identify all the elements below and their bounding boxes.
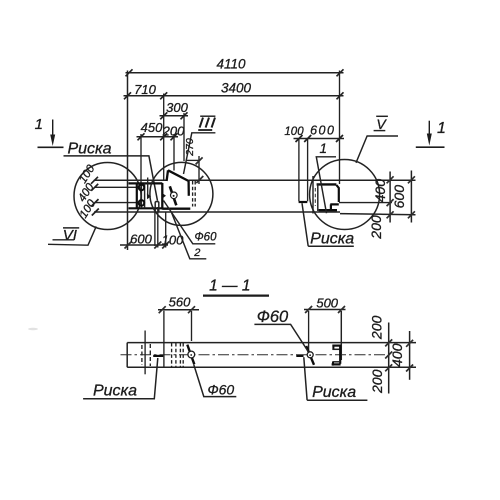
svg-text:Ф60: Ф60 <box>257 308 289 326</box>
extension anchor down <box>165 212 167 248</box>
beam left edge / extension <box>127 71 129 251</box>
svg-text:4110: 4110 <box>216 57 246 72</box>
beam right edge <box>340 311 342 360</box>
extension line x=339.5 <box>339 71 341 185</box>
right dim line 400/200 <box>389 172 391 223</box>
extension line x=163.7 <box>163 94 165 181</box>
dimension 100 below (top view) <box>162 242 169 249</box>
svg-text:270: 270 <box>184 138 196 157</box>
svg-text:200: 200 <box>369 316 385 341</box>
dimension 500 <box>304 309 346 311</box>
dimension 560 <box>158 309 199 311</box>
svg-text:1: 1 <box>437 120 446 137</box>
anchor diagonal bar <box>170 186 177 205</box>
dimension 100 / 600 (right top) <box>294 135 345 142</box>
dimension 300 <box>160 112 189 119</box>
centerline <box>121 354 391 356</box>
hole 2 bar <box>306 346 314 365</box>
svg-text:Риска: Риска <box>93 383 137 400</box>
svg-text:200: 200 <box>369 369 385 394</box>
svg-text:Риска: Риска <box>67 141 111 158</box>
plate right edge <box>144 183 146 208</box>
dimension 600 below (top view) <box>120 244 168 246</box>
small arrow at anchor box edge <box>162 193 166 199</box>
bracket right profile <box>336 185 338 202</box>
hole 1 <box>188 351 195 358</box>
ticks right dims <box>387 176 415 218</box>
560 extension through beam <box>163 311 165 368</box>
svg-text:600: 600 <box>130 231 152 246</box>
bracket bottom step <box>330 204 339 210</box>
label III <box>200 118 215 128</box>
svg-text:600: 600 <box>391 185 407 209</box>
dimension 450 / 200 <box>137 133 179 140</box>
riska mark box on beam <box>155 202 159 212</box>
section marker 1 (left) <box>38 120 64 148</box>
svg-text:Риска: Риска <box>310 230 354 247</box>
svg-text:Ф60: Ф60 <box>195 232 218 244</box>
svg-text:3400: 3400 <box>221 81 252 96</box>
bolt top <box>139 185 145 191</box>
section marker 1 (right) <box>416 121 445 148</box>
small section line with arrow at plate <box>147 178 149 199</box>
beam outline <box>127 343 416 368</box>
anchor box bottom <box>162 208 190 210</box>
bolt bottom <box>139 200 145 206</box>
anchor triangle <box>167 170 189 196</box>
svg-text:VI: VI <box>63 227 77 244</box>
svg-text:2: 2 <box>193 247 200 259</box>
right side dims (bottom view) <box>388 323 390 394</box>
extension riska down <box>157 207 159 248</box>
plate left edge <box>136 183 138 208</box>
svg-text:400: 400 <box>389 343 405 367</box>
svg-text:1: 1 <box>320 141 328 156</box>
svg-text:710: 710 <box>134 82 156 97</box>
right end C-bracket <box>332 345 341 347</box>
right extension line y=202.6 <box>339 202 392 204</box>
extension line x=299 <box>298 139 300 201</box>
scan smudge <box>28 328 38 330</box>
svg-text:450: 450 <box>141 120 163 135</box>
beam top edge <box>94 179 416 181</box>
detail circle VI <box>74 163 141 230</box>
riska marks group 2 <box>172 343 184 367</box>
svg-text:500: 500 <box>316 296 338 311</box>
extension line x=184 <box>183 113 185 161</box>
bracket hidden line <box>314 188 316 206</box>
bolt line <box>140 184 142 208</box>
svg-text:400: 400 <box>372 179 388 203</box>
riska dash right (bottom view) <box>296 355 303 357</box>
beam bottom edge <box>94 212 416 215</box>
left vertical dim chain 100/400/100 <box>91 177 139 216</box>
svg-text:300: 300 <box>166 100 188 115</box>
bracket left thin vertical <box>312 176 314 214</box>
left end plate (top/bottom thick bars) <box>129 183 163 208</box>
hole 2 <box>307 352 313 358</box>
detail circle V <box>310 160 380 230</box>
bracket bottom bar <box>319 209 337 211</box>
hole 1 bar <box>187 345 194 365</box>
right end bracket: top bar <box>317 183 337 185</box>
riska marks group 1 <box>141 345 143 365</box>
svg-text:200: 200 <box>368 215 384 240</box>
right dim line 600 <box>410 171 412 223</box>
dimension 270 (vertical) <box>186 159 200 161</box>
svg-text:1 — 1: 1 — 1 <box>209 278 250 295</box>
extension line x=307.6 <box>307 139 309 201</box>
extension line x=141 <box>140 134 142 186</box>
dimension 710 / 3400 <box>124 92 344 99</box>
anchor hole <box>171 192 178 199</box>
hidden centerlines (dashed) <box>193 181 196 207</box>
riska mark (right, top view) <box>299 201 308 203</box>
svg-text:Ф60: Ф60 <box>207 382 234 398</box>
detail circle (middle) <box>150 162 213 225</box>
svg-text:100: 100 <box>284 126 304 138</box>
dimension 4110 <box>126 69 344 76</box>
anchor box left edge <box>161 183 163 210</box>
svg-text:560: 560 <box>169 295 191 310</box>
svg-text:1: 1 <box>35 116 43 133</box>
svg-text:Риска: Риска <box>312 384 356 401</box>
bracket left edge <box>317 184 319 211</box>
svg-text:600: 600 <box>310 124 335 138</box>
extension line x=174 <box>173 134 175 171</box>
riska dash left <box>153 355 163 357</box>
